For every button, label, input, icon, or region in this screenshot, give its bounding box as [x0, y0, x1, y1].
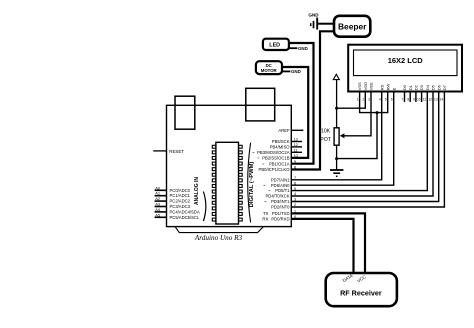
- svg-text:A1: A1: [155, 191, 161, 196]
- RESET pin: [153, 150, 166, 152]
- digital brace: [248, 143, 251, 223]
- svg-text:10K: 10K: [321, 129, 331, 135]
- svg-text:2: 2: [362, 97, 364, 101]
- wire junction down to pot gnd rail: [337, 113, 377, 159]
- pwm tildes and tx rx: [252, 150, 271, 222]
- right pin labels: [257, 128, 290, 222]
- node VCC/VDD: [335, 107, 338, 110]
- svg-text:D0: D0: [402, 84, 407, 90]
- svg-text:RF Receiver: RF Receiver: [340, 289, 382, 298]
- svg-text:PB0/ICP1/CLKO: PB0/ICP1/CLKO: [259, 167, 291, 172]
- svg-text:~: ~: [257, 156, 260, 161]
- svg-text:13: 13: [434, 97, 438, 101]
- svg-text:A5: A5: [155, 212, 161, 217]
- svg-text:D3: D3: [419, 84, 424, 90]
- wire D4 to pin5: [291, 92, 427, 191]
- svg-text:A3: A3: [155, 202, 161, 207]
- AREF stub: [291, 129, 303, 131]
- wire RX to RF DATA: [291, 219, 353, 273]
- power jack box: [246, 88, 275, 121]
- beeper LS1: [334, 16, 370, 37]
- svg-text:MOTOR: MOTOR: [261, 68, 278, 73]
- svg-text:1: 1: [357, 97, 359, 101]
- svg-text:PD5/T1: PD5/T1: [275, 188, 290, 193]
- USB connector box: [175, 96, 195, 129]
- pin12 stub: [291, 146, 302, 148]
- board U1 outline: [167, 105, 292, 226]
- svg-text:TX: TX: [263, 211, 269, 216]
- LCD pin numbers: [357, 97, 444, 101]
- right pin numbers: [294, 138, 298, 219]
- D0-D3 stubs: [405, 92, 422, 103]
- svg-text:PB3/MOSI/OC2A: PB3/MOSI/OC2A: [257, 150, 290, 155]
- svg-text:~: ~: [252, 150, 255, 155]
- wire gnd to beeper: [318, 23, 334, 25]
- board bottom tab: [175, 227, 264, 233]
- LCD box: [348, 45, 462, 92]
- svg-text:GND: GND: [291, 69, 301, 74]
- svg-text:GND: GND: [298, 46, 308, 51]
- svg-text:~: ~: [264, 199, 267, 204]
- wire VDD to VCC node: [337, 92, 366, 109]
- analog brace: [203, 192, 205, 222]
- svg-text:PC2/ADC2: PC2/ADC2: [170, 199, 191, 204]
- LCD screen: [354, 50, 458, 76]
- DC motor M1: [256, 61, 282, 74]
- wire VCC to pot top: [336, 80, 338, 128]
- svg-text:DIGITAL (~PWM): DIGITAL (~PWM): [249, 162, 255, 208]
- svg-text:3: 3: [368, 97, 370, 101]
- svg-text:PC0/ADC0: PC0/ADC0: [170, 188, 191, 193]
- pin13 stub: [291, 141, 302, 143]
- svg-text:VDD: VDD: [363, 82, 368, 91]
- wire LED to pin9: [289, 43, 314, 164]
- svg-text:VSS: VSS: [357, 82, 362, 90]
- svg-text:A0: A0: [155, 185, 161, 190]
- wire beeper to pin8: [291, 31, 334, 169]
- DC motor gnd stub: [282, 70, 290, 72]
- svg-text:POT: POT: [320, 137, 331, 143]
- LCD pin labels (rotated): [357, 82, 447, 91]
- svg-text:D5: D5: [431, 84, 436, 90]
- svg-text:GND: GND: [308, 13, 319, 18]
- svg-text:Arduino Uno R3: Arduino Uno R3: [194, 234, 243, 242]
- svg-text:A4: A4: [155, 207, 161, 212]
- svg-text:RW: RW: [385, 83, 390, 90]
- svg-text:PB1/OC1A: PB1/OC1A: [269, 161, 290, 166]
- svg-text:11: 11: [423, 97, 427, 101]
- svg-text:D1: D1: [408, 84, 413, 90]
- svg-text:PB5/SCK: PB5/SCK: [272, 139, 290, 144]
- svg-text:D7: D7: [442, 84, 447, 90]
- wire E to pin6: [291, 92, 393, 186]
- svg-text:A2: A2: [155, 196, 161, 201]
- svg-text:16X2 LCD: 16X2 LCD: [388, 56, 424, 65]
- node pot gnd: [335, 157, 338, 160]
- svg-text:PD2/INT0: PD2/INT0: [271, 205, 290, 210]
- svg-text:10: 10: [417, 97, 421, 101]
- wire pot bottom: [336, 145, 338, 169]
- svg-text:RX: RX: [262, 217, 268, 222]
- svg-text:6: 6: [391, 97, 393, 101]
- wire RS to pin7: [291, 92, 381, 180]
- svg-text:PD0/RXD: PD0/RXD: [271, 217, 289, 222]
- svg-text:PD1/TXD: PD1/TXD: [272, 211, 290, 216]
- svg-text:ANALOG IN: ANALOG IN: [194, 177, 200, 205]
- svg-text:5: 5: [385, 97, 387, 101]
- svg-text:14: 14: [440, 97, 444, 101]
- svg-text:PC5/ADC5/SCL: PC5/ADC5/SCL: [170, 215, 200, 220]
- pin11 stub: [291, 151, 302, 153]
- svg-text:VEE: VEE: [369, 82, 374, 90]
- svg-text:PC4/ADC4/SDA: PC4/ADC4/SDA: [170, 209, 200, 214]
- svg-text:RESET: RESET: [169, 149, 184, 154]
- svg-text:PB4/MISO: PB4/MISO: [270, 145, 291, 150]
- svg-text:LED: LED: [269, 42, 280, 48]
- left analog pins: [155, 190, 167, 217]
- svg-text:PB2/SS/OC1B: PB2/SS/OC1B: [262, 156, 289, 161]
- svg-text:E: E: [391, 87, 396, 90]
- pot RV1 body: [334, 128, 339, 145]
- analog pin labels PC0-PC5: [170, 188, 200, 220]
- svg-text:9: 9: [413, 97, 415, 101]
- RF receiver box: [326, 273, 397, 306]
- svg-text:D2: D2: [414, 84, 419, 90]
- svg-text:~: ~: [263, 183, 266, 188]
- svg-text:~: ~: [262, 161, 265, 166]
- svg-text:PD3/INT1: PD3/INT1: [271, 199, 290, 204]
- svg-text:7: 7: [402, 97, 404, 101]
- wire VEE to pot wiper: [344, 92, 371, 136]
- svg-text:PC1/ADC1: PC1/ADC1: [170, 193, 191, 198]
- svg-text:12: 12: [428, 97, 432, 101]
- node VSS/RW junction: [376, 111, 379, 114]
- wire VSS + RW to gnd rail: [360, 92, 388, 113]
- LED gnd stub: [289, 47, 297, 49]
- svg-text:PD6/AIN0: PD6/AIN0: [271, 183, 290, 188]
- svg-text:AREF: AREF: [278, 128, 290, 133]
- svg-text:Beeper: Beeper: [338, 21, 367, 31]
- wire D5 to pin4: [291, 92, 433, 197]
- ATmega DIP chip: [212, 142, 242, 224]
- pot wiper arrow: [340, 133, 345, 138]
- svg-text:PD7/AIN1: PD7/AIN1: [271, 177, 290, 182]
- svg-text:~: ~: [268, 188, 271, 193]
- VCC arrow: [333, 74, 339, 79]
- analog pin numbers A0-A5: [155, 185, 161, 217]
- ground symbol (pot): [330, 169, 343, 171]
- LED D1: [263, 39, 289, 50]
- svg-text:8: 8: [407, 97, 409, 101]
- svg-text:PD4/T0/XCK: PD4/T0/XCK: [266, 194, 290, 199]
- svg-text:RS: RS: [379, 84, 384, 90]
- wire TX to RF VCC: [291, 213, 365, 273]
- wire D7 to pin2: [291, 92, 444, 208]
- wire DC motor to pin10: [282, 67, 308, 158]
- wire D6 to pin3: [291, 92, 438, 202]
- svg-text:4: 4: [379, 97, 381, 101]
- svg-text:PC3/ADC3: PC3/ADC3: [170, 204, 191, 209]
- svg-text:D4: D4: [425, 84, 430, 90]
- svg-text:D6: D6: [436, 84, 441, 90]
